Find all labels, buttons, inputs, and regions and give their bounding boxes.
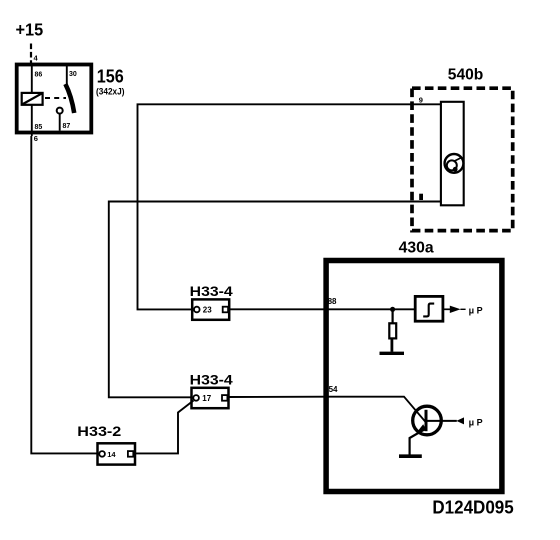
junction dot [390,307,395,312]
svg-text:6: 6 [34,134,38,143]
wire connector 17 to 430a pin 54 [228,396,326,398]
connector 17 right pin square [222,395,227,401]
wire pulse shaper to arrow [443,308,450,310]
svg-text:H33-4: H33-4 [190,371,233,387]
connector H33-4 (pin 23) body [192,299,229,319]
svg-text:85: 85 [35,124,43,131]
wire connector 17 down to H33-2 [135,401,194,454]
transistor collector line [427,420,457,422]
connector H33-4 (pin 17) body [192,388,229,408]
wire relay pin 4 to coil [31,65,33,94]
lamp body 540b [441,102,464,206]
transistor emitter [410,429,426,455]
svg-text:17: 17 [202,394,211,403]
relay switch contact [57,108,63,114]
svg-text:86: 86 [35,72,43,79]
svg-text:430a: 430a [399,240,435,257]
pulse shaper step symbol [423,304,434,317]
svg-text:(342xJ): (342xJ) [96,87,125,97]
ground (resistor) [380,352,405,355]
arrow from microprocessor (left) [456,417,464,424]
svg-text:30: 30 [69,71,77,78]
svg-text:23: 23 [203,305,212,314]
transistor base bar [425,410,428,431]
connector 14 left pin circle [99,451,105,457]
resistor R1 [389,323,396,338]
wire relay pin 30 to switch [66,66,68,84]
wire relay pin 6 down to H33-2 [31,136,98,453]
box 540b (dashed) [412,88,513,230]
ground (transistor) [399,454,422,458]
relay K156 box [17,65,92,133]
svg-text:540b: 540b [448,67,484,84]
relay coil K1 [22,93,43,105]
svg-text:14: 14 [107,450,116,459]
lamp inner detail [447,158,462,172]
relay coil-switch link (dashed) [45,97,66,99]
svg-text:H33-2: H33-2 [77,423,121,439]
wire 430a pin 88 to pulse shaper [326,308,415,310]
wire coil to relay pin 6 [31,105,33,136]
wire +15 to relay pin 4 (dashed) [30,44,32,64]
svg-text:D124D095: D124D095 [432,497,513,518]
wire junction to resistor [392,309,394,323]
svg-text:H33-4: H33-4 [190,283,233,299]
svg-text:88: 88 [328,297,337,306]
transistor Q1 circle [413,406,442,435]
svg-text:156: 156 [97,66,124,87]
connector 23 left pin circle [194,307,200,313]
wire resistor to ground [390,339,393,352]
connector 17 left pin circle [193,395,199,401]
pin label 8 [419,194,423,200]
svg-text:μ P: μ P [469,417,484,428]
connector 23 right pin square [223,307,228,313]
wire connector 23 to 430a pin 88 [229,308,327,310]
arrow to microprocessor (right) [450,306,466,313]
svg-text:4: 4 [34,54,39,63]
connector 14 right pin square [128,451,133,457]
relay switch blade [65,84,74,113]
wire 540b pin 9 to connector H33-4/23 [138,104,441,309]
wire contact to relay pin 87 [59,114,61,131]
svg-text:μ P: μ P [469,305,484,316]
control unit box 430a [326,261,502,492]
svg-text:87: 87 [63,123,71,130]
wire 540b pin 8 to connector H33-4/17 [109,202,441,398]
transistor emitter arrow [418,424,427,431]
pulse shaper box U1 [415,296,443,321]
svg-text:9: 9 [419,95,423,104]
svg-text:54: 54 [329,385,338,394]
svg-text:+15: +15 [16,20,44,40]
lamp circle [445,154,464,173]
connector H33-2 body [98,443,136,464]
wire 430a pin 54 to transistor base [326,397,426,423]
